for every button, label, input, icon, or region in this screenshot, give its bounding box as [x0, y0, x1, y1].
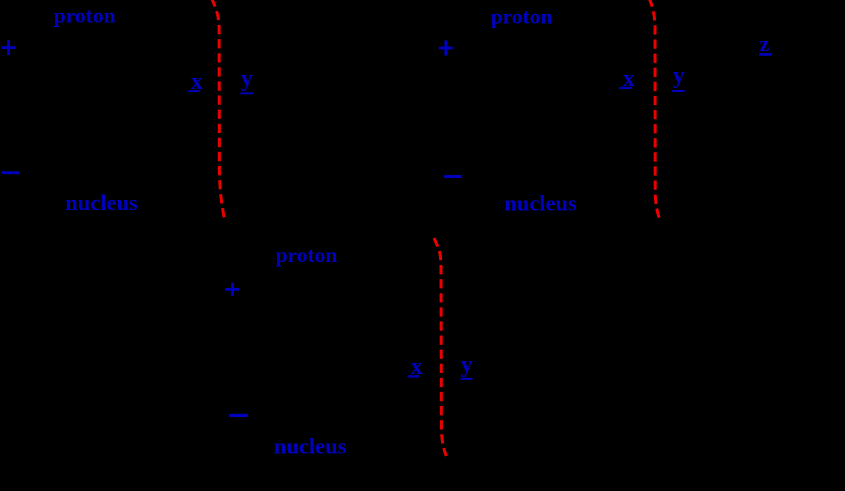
svg-text:y: y	[461, 352, 473, 378]
svg-text:y: y	[673, 63, 685, 89]
svg-text:nucleus: nucleus	[65, 190, 138, 215]
svg-text:nucleus: nucleus	[504, 191, 577, 216]
svg-text:proton: proton	[491, 4, 553, 28]
svg-text:nucleus: nucleus	[274, 434, 347, 459]
svg-text:proton: proton	[276, 243, 338, 267]
svg-text:z: z	[760, 31, 770, 56]
svg-text:y: y	[241, 66, 253, 92]
svg-text:proton: proton	[54, 4, 116, 28]
